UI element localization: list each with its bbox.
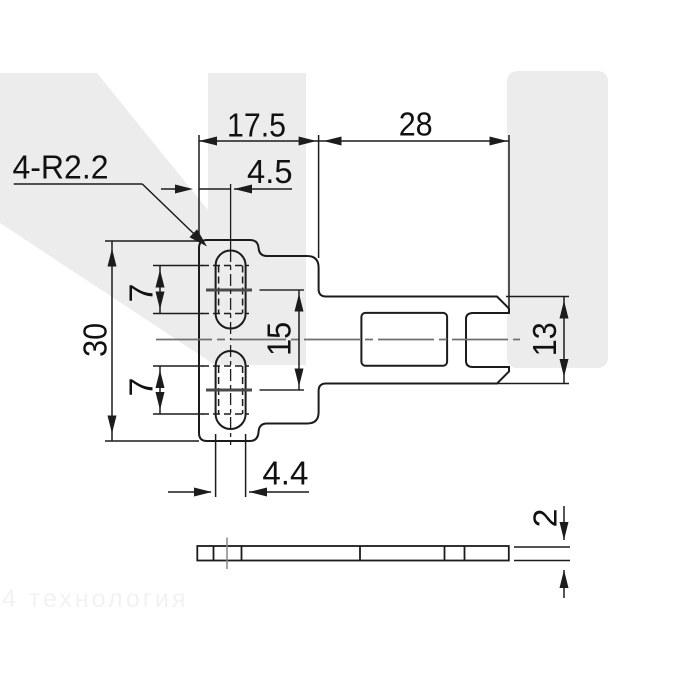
dimension 15	[298, 290, 300, 390]
dimension 4.4	[168, 434, 309, 497]
svg-text:4.5: 4.5	[247, 153, 293, 190]
dimension 4.5	[161, 188, 292, 190]
svg-text:7: 7	[123, 284, 160, 303]
dimension 7 bottom	[153, 366, 203, 414]
svg-text:4-R2.2: 4-R2.2	[13, 149, 109, 186]
svg-text:30: 30	[77, 323, 114, 357]
dimension 7 top	[153, 266, 203, 314]
slot vertical centerlines	[230, 184, 232, 445]
slot bottom obround	[216, 351, 246, 429]
svg-text:4 технология: 4 технология	[2, 585, 188, 613]
svg-text:15: 15	[261, 322, 298, 356]
hidden dashed lines, top slot	[202, 266, 249, 415]
dimension 30	[105, 241, 199, 441]
svg-text:28: 28	[399, 106, 433, 143]
slot top obround	[216, 251, 246, 329]
rectangular hole	[361, 313, 447, 366]
part outline front view	[199, 240, 509, 441]
main centerline	[156, 339, 520, 341]
svg-text:13: 13	[526, 322, 563, 356]
dimension 13	[490, 297, 569, 384]
svg-text:7: 7	[122, 378, 159, 397]
watermark left wedge	[0, 73, 306, 365]
side view	[197, 546, 509, 561]
dimension 17.5	[199, 135, 509, 308]
svg-text:2: 2	[526, 509, 563, 528]
dimension 2	[514, 506, 570, 598]
svg-text:4.4: 4.4	[262, 455, 308, 492]
hidden dashed lines, bottom slot	[202, 365, 249, 367]
watermark right band	[507, 71, 608, 368]
slot mid gray lines	[206, 290, 252, 390]
svg-text:17.5: 17.5	[227, 107, 286, 144]
